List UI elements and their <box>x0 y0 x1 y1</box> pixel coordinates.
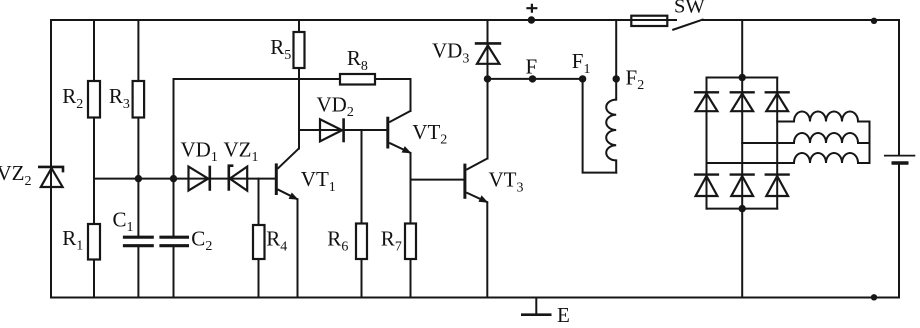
field coil F2 <box>606 100 616 161</box>
transistor VT1 <box>276 148 299 199</box>
svg-text:F2: F2 <box>626 65 645 93</box>
svg-text:VT2: VT2 <box>412 120 447 148</box>
wire bottom rail <box>51 297 899 299</box>
rectifier diode D5 bottom <box>730 175 755 196</box>
zener VZ2 <box>38 167 63 187</box>
svg-text:C2: C2 <box>191 226 212 254</box>
zener VZ1 <box>229 166 247 191</box>
node dot divider-C1 <box>135 175 142 182</box>
stator winding phase 2 <box>794 133 858 143</box>
svg-text:R3: R3 <box>109 84 130 112</box>
svg-text:SW: SW <box>674 0 705 18</box>
resistor R7 <box>405 224 416 260</box>
transistor VT3 emitter arrow <box>478 195 488 202</box>
stator winding phase 1 <box>794 112 858 122</box>
node dot battery top <box>871 18 877 24</box>
svg-text:F1: F1 <box>572 49 591 77</box>
svg-text:R1: R1 <box>62 226 83 254</box>
wire F node horizontal <box>488 78 583 80</box>
capacitor C2 <box>159 237 189 246</box>
wire bridge column 3 <box>776 78 778 209</box>
wire R4 branch <box>258 179 260 298</box>
wire R5/VT1-collector branch <box>298 20 300 149</box>
wire R6 branch <box>361 130 363 298</box>
svg-text:VT1: VT1 <box>301 167 336 195</box>
label plus <box>526 4 537 13</box>
resistor R2 <box>88 81 100 118</box>
wire R2/R1 branch <box>93 20 95 298</box>
svg-text:R7: R7 <box>381 227 402 255</box>
svg-text:R8: R8 <box>347 46 368 74</box>
svg-text:C1: C1 <box>113 207 134 235</box>
node dot bridge bottom <box>739 205 746 212</box>
rectifier diode D4 bottom <box>694 175 719 196</box>
wire bridge top rail <box>707 77 778 79</box>
svg-text:VD2: VD2 <box>317 92 354 120</box>
svg-text:R5: R5 <box>270 35 291 63</box>
wire bridge DC+ feed <box>741 20 743 78</box>
wire top rail left of switch <box>51 19 676 21</box>
battery positive plate <box>884 155 915 157</box>
wire F2 coil lower stub <box>615 160 617 172</box>
wire R3/C1 branch upper <box>137 20 139 236</box>
wire VD2 to VT2 base <box>299 129 387 131</box>
svg-text:R4: R4 <box>266 227 287 255</box>
resistor R5 <box>294 32 305 68</box>
node dot bridge top <box>739 74 746 81</box>
wire stator right lead 3 <box>858 162 870 164</box>
rectifier diode D1 top <box>694 92 719 111</box>
diode VD2 <box>320 118 344 142</box>
resistor R6 <box>356 224 367 260</box>
wire stator right lead 1 <box>858 121 870 123</box>
node dot F terminal <box>529 75 536 82</box>
node dot F2 terminal <box>613 75 620 82</box>
node dot plus terminal <box>528 16 535 23</box>
node dot VD3/VT3 junction <box>484 75 491 82</box>
rectifier diode D6 bottom <box>765 175 790 196</box>
rectifier diode D2 top <box>730 92 755 111</box>
rectifier diode D3 top <box>765 92 790 111</box>
wire C2 branch upper <box>173 79 175 236</box>
wire VT3 collector vertical <box>487 79 489 159</box>
resistor R3 <box>133 81 145 118</box>
node dot divider-C2 <box>170 175 177 182</box>
wire VD3 branch <box>487 20 489 79</box>
wire F2 upper <box>615 20 617 100</box>
transistor VT2 emitter arrow <box>402 146 412 153</box>
diode VD1 <box>189 166 210 191</box>
wire F1 drop and bottom link <box>583 79 617 173</box>
resistor R1 <box>88 224 100 260</box>
svg-text:F: F <box>526 55 538 79</box>
wire VT1 emitter vertical <box>297 199 299 297</box>
wire bridge column 1 <box>706 78 708 209</box>
wire bridge column 2 <box>741 78 743 209</box>
wire stator star join <box>869 122 871 164</box>
transistor VT3 <box>465 159 487 203</box>
wire VT2 collector vertical <box>410 79 412 111</box>
wire VT3 emitter vertical <box>486 202 488 297</box>
wire VT2 emitter to VT3 base <box>411 179 464 181</box>
wire phase lead 2 <box>742 142 794 144</box>
resistor R8 <box>340 74 375 85</box>
transistor VT2 <box>388 111 411 153</box>
wire left rail <box>50 20 52 298</box>
resistor R4 <box>253 225 265 259</box>
node dot F1 terminal <box>579 75 586 82</box>
capacitor C1 <box>123 237 154 246</box>
wire bridge bottom rail <box>707 208 778 210</box>
svg-text:VD1: VD1 <box>181 137 218 165</box>
svg-text:R6: R6 <box>327 227 348 255</box>
wire stator right lead 2 <box>858 142 870 144</box>
wire feedback horizontal y79 <box>174 78 411 80</box>
wire phase lead 3 <box>707 162 795 164</box>
ground E symbol <box>521 298 552 315</box>
node dot battery bottom <box>871 294 877 300</box>
transistor VT1 emitter arrow <box>289 193 299 200</box>
svg-text:VD3: VD3 <box>432 39 469 67</box>
svg-text:VZ1: VZ1 <box>224 137 259 165</box>
wire VT2 emitter / R7 branch <box>410 153 412 298</box>
wire right rail lower (from battery) <box>898 164 900 298</box>
wire R3/C1 branch lower <box>137 247 139 297</box>
svg-text:R2: R2 <box>62 84 83 112</box>
wire phase lead 1 <box>777 121 794 123</box>
wire reference horizontal y178.6 <box>94 178 275 180</box>
svg-text:VT3: VT3 <box>489 168 524 196</box>
battery negative plate <box>892 161 909 164</box>
fuse <box>631 16 667 26</box>
switch SW blade <box>672 19 703 30</box>
stator winding phase 3 <box>794 153 858 163</box>
wire right rail upper (to battery) <box>898 20 900 155</box>
wire top rail right of switch <box>703 19 899 21</box>
wire bridge DC- to bottom rail <box>741 209 743 298</box>
svg-text:VZ2: VZ2 <box>0 161 32 189</box>
wire C2 branch lower <box>173 247 175 297</box>
diode VD3 <box>475 43 501 63</box>
svg-text:E: E <box>557 303 570 327</box>
